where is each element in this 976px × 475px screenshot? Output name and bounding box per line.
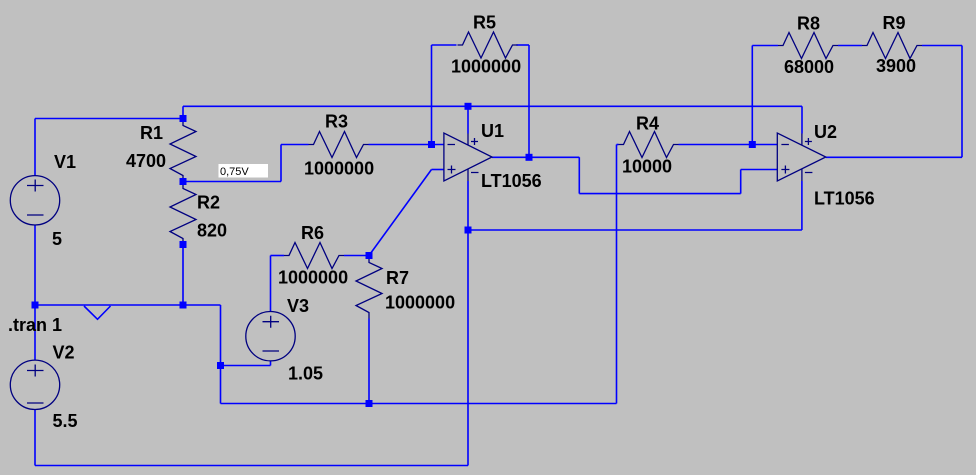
svg-text:1000000: 1000000 [278, 268, 348, 288]
resistor R6 [284, 243, 344, 269]
resistor R7 [356, 256, 382, 319]
svg-text:5: 5 [52, 229, 62, 249]
wire V1 plus to node A [35, 118, 183, 120]
wire U2 V+ drop [801, 106, 803, 133]
wire junction down to mid-bottom rail [220, 366, 222, 404]
wire U1 V- drop [467, 181, 469, 466]
node junction U1 V+ rail [465, 103, 472, 110]
wire V2 top lead [34, 305, 36, 361]
svg-text:0,75V: 0,75V [220, 166, 249, 178]
wire ground corner down [220, 305, 222, 366]
svg-text:R3: R3 [325, 112, 348, 132]
svg-text:4700: 4700 [126, 151, 166, 171]
svg-text:R1: R1 [140, 123, 163, 143]
voltage source V3 [246, 312, 295, 361]
op-amp U1 [444, 133, 492, 181]
resistor R2 [170, 182, 196, 244]
svg-text:R4: R4 [636, 114, 659, 134]
svg-text:.tran 1: .tran 1 [8, 315, 62, 335]
node junction ground rail V1 V2 [32, 302, 39, 309]
wire U1 plus input stub [432, 169, 444, 171]
svg-text:R9: R9 [883, 13, 906, 33]
svg-text:68000: 68000 [784, 57, 834, 77]
wire V1 top lead [34, 119, 36, 176]
wire R8 left riser [751, 46, 753, 145]
node junction U1 V- rail [465, 227, 472, 234]
wire R4 left lead [617, 144, 619, 146]
svg-text:820: 820 [197, 221, 227, 241]
node junction ground rail R2 [180, 302, 187, 309]
wire R5 left lead [432, 44, 457, 46]
wire mid-bottom rail [221, 403, 617, 405]
wire U2 V- drop and negative rail [468, 181, 802, 230]
svg-text:10000: 10000 [622, 157, 672, 177]
wire R7 bottom lead [368, 319, 370, 404]
svg-text:LT1056: LT1056 [814, 189, 875, 209]
wire R8 left lead [752, 45, 778, 47]
node junction V3 minus [217, 362, 224, 369]
wire R6 left corner [271, 255, 285, 257]
svg-text:R7: R7 [386, 268, 409, 288]
voltage source V2 [10, 360, 59, 409]
svg-text:R2: R2 [197, 193, 220, 213]
node junction R1 R2 [180, 178, 187, 185]
wire bottom rail [35, 465, 468, 467]
wire R5 left riser [431, 45, 433, 145]
wire R5 right riser [528, 45, 530, 157]
svg-text:R8: R8 [797, 14, 820, 34]
node junction R1 top [180, 115, 187, 122]
wire R6 right lead [344, 255, 369, 257]
node junction U1 inverting input [428, 141, 435, 148]
wire V3 top lead [270, 256, 272, 312]
wire V2 bottom lead [34, 410, 36, 466]
wire R2 bottom to ground rail [182, 245, 184, 306]
wire U1 V+ drop [467, 106, 469, 133]
resistor R1 [170, 119, 196, 181]
resistor R3 [309, 132, 369, 158]
svg-text:V3: V3 [287, 296, 309, 316]
ground symbol [84, 306, 111, 319]
voltage source V1 [10, 176, 59, 225]
resistor R4 [619, 132, 679, 158]
svg-text:5.5: 5.5 [53, 411, 78, 431]
svg-text:1000000: 1000000 [451, 57, 521, 77]
svg-text:V2: V2 [53, 343, 75, 363]
wire node A2 right [183, 145, 309, 182]
node junction R6 R7 [366, 252, 373, 259]
op-amp U2 [777, 133, 826, 181]
svg-text:R5: R5 [473, 13, 496, 33]
wire ground rail [35, 304, 221, 306]
wire node A stub up [182, 106, 184, 118]
node junction U1 output [526, 154, 533, 161]
wire R3 to U1 inverting input [369, 144, 444, 146]
wire U1 output to U2 plus input [492, 157, 777, 193]
node junction R7 bottom [366, 400, 373, 407]
wire R9 right lead [922, 45, 962, 47]
resistor R9 [862, 33, 922, 59]
svg-text:R6: R6 [301, 223, 324, 243]
svg-text:1.05: 1.05 [288, 364, 323, 384]
wire top supply rail [183, 105, 802, 107]
wire R5 right lead [517, 44, 530, 46]
node junction R2 bottom [180, 241, 187, 248]
svg-text:1000000: 1000000 [304, 159, 374, 179]
wire R4 to U2 inverting input [679, 144, 778, 146]
wire R4 left riser [616, 145, 618, 404]
wire V3 minus segment [221, 361, 271, 366]
node junction U2 inverting input [749, 141, 756, 148]
svg-text:LT1056: LT1056 [481, 171, 542, 191]
svg-text:U1: U1 [481, 121, 504, 141]
svg-text:V1: V1 [54, 152, 76, 172]
resistor R5 [458, 32, 518, 58]
svg-text:3900: 3900 [876, 56, 916, 76]
svg-text:U2: U2 [814, 122, 837, 142]
svg-text:1000000: 1000000 [385, 293, 455, 313]
wire diagonal to R6 R7 node [369, 170, 432, 256]
wire R8 R9 middle lead [838, 45, 862, 47]
resistor R8 [778, 33, 838, 59]
wire U2 output riser [826, 46, 962, 158]
wire V1 bottom lead [34, 226, 36, 306]
node voltage label 0,75V [219, 164, 269, 178]
